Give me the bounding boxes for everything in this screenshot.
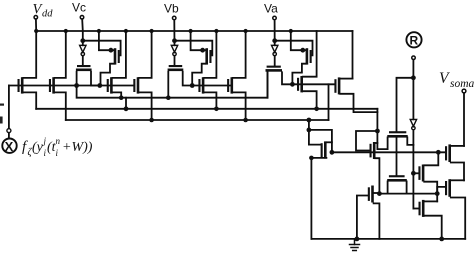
label Vdd xyxy=(33,2,54,20)
svg-text:soma: soma xyxy=(450,78,474,90)
node dot M12 source xyxy=(439,237,444,242)
node dot gnd1 xyxy=(355,237,360,242)
node dot A xyxy=(74,83,79,88)
transistor M3a mirror xyxy=(291,31,312,84)
transistor M6r xyxy=(334,77,377,112)
transistor M4b xyxy=(198,31,216,109)
wire X stem xyxy=(8,133,10,139)
node dot Va bias xyxy=(272,38,277,43)
scan artifact left edge xyxy=(0,104,4,106)
wire Vc bias line xyxy=(83,41,121,56)
wire D3 to Q1a gate xyxy=(274,56,276,66)
node dot J1 xyxy=(375,129,380,134)
wire D1 to Q1c gate xyxy=(82,56,84,66)
wire B2 to B3 connector xyxy=(125,98,127,109)
wire Vdd rail xyxy=(36,30,352,32)
svg-text:+W)): +W)) xyxy=(62,140,93,155)
diode D4 xyxy=(410,119,416,129)
transistor Q3 rotated xyxy=(387,175,407,193)
node rail dots xyxy=(34,29,293,33)
node dot B xyxy=(97,83,102,88)
transistor M8 xyxy=(311,141,332,239)
transistor Q2 rotated xyxy=(377,131,413,149)
wire Va bias line xyxy=(275,41,313,56)
wire R line lower xyxy=(412,130,414,209)
svg-text:j: j xyxy=(43,136,47,146)
wire Vb bias line xyxy=(175,41,213,56)
transistor Q1c rotated xyxy=(76,65,100,86)
wire Vc stem xyxy=(81,19,84,45)
wire B4 riser xyxy=(328,84,330,120)
svg-text:Vb: Vb xyxy=(164,2,179,16)
svg-text:n: n xyxy=(56,136,61,146)
wire Vsoma stem xyxy=(463,94,465,146)
wire ground bus xyxy=(311,238,465,240)
wire bus B3 xyxy=(36,108,377,110)
node dot M9 drain tap xyxy=(436,150,441,155)
node dot M4c source xyxy=(119,95,124,100)
ground symbol xyxy=(350,239,360,251)
svg-text:X: X xyxy=(5,139,14,154)
node dot J4 xyxy=(377,191,382,196)
label formula f(y(t+W)) xyxy=(22,136,93,158)
transistor M3c mirror xyxy=(99,31,120,86)
node dot M5c source xyxy=(149,118,154,123)
terminal R node xyxy=(412,56,416,60)
wire gate line input xyxy=(9,85,134,87)
diode D2 xyxy=(171,45,177,55)
terminal Vc xyxy=(80,16,84,20)
transistor M13 xyxy=(445,179,465,239)
node dot J2 xyxy=(307,127,312,132)
node dot M4b source xyxy=(214,107,219,112)
wire M13 gate riser xyxy=(437,187,445,194)
transistor M5c xyxy=(133,31,151,120)
wire bus B4 xyxy=(66,119,329,121)
transistor M3b mirror xyxy=(191,31,212,86)
svg-text:R: R xyxy=(410,34,419,48)
transistor M10 xyxy=(357,186,380,239)
node dot connector xyxy=(124,106,129,111)
diode D3 xyxy=(272,45,278,55)
wire Vdd stem xyxy=(35,19,37,31)
node dot node a xyxy=(290,82,295,87)
svg-text:V: V xyxy=(439,70,450,87)
svg-text:Vc: Vc xyxy=(72,1,86,15)
wire Vb stem xyxy=(173,20,175,45)
terminal Vsoma xyxy=(462,89,466,93)
svg-text:i: i xyxy=(56,148,59,158)
transistor M11 xyxy=(413,152,438,201)
wire B3 corner down xyxy=(376,109,378,149)
transistor M5b xyxy=(227,31,246,120)
wire R tap to Q2 xyxy=(397,78,414,131)
node dot Q1b drain xyxy=(166,95,171,100)
terminal X node xyxy=(7,129,11,133)
wire D2 to Q1b gate xyxy=(174,56,176,66)
wire Va stem xyxy=(274,20,276,45)
wire Q2 to Q3 xyxy=(396,137,398,175)
svg-text:dd: dd xyxy=(42,9,53,20)
wire B4 drop xyxy=(309,120,321,145)
node dot M5b source xyxy=(243,118,248,123)
node dot Vc bias xyxy=(80,38,85,43)
terminal Vb xyxy=(172,16,176,20)
node dot Vb bias xyxy=(172,38,177,43)
terminal Vdd xyxy=(34,16,38,20)
wire gate line b xyxy=(192,85,231,87)
svg-text:Va: Va xyxy=(264,2,278,16)
wire J1 to M7 gate xyxy=(356,131,377,151)
wire bus B2 xyxy=(77,71,268,98)
terminal X circled xyxy=(2,139,16,153)
wire J2 top link xyxy=(309,130,332,152)
transistor M4c xyxy=(107,31,126,98)
node dot R node xyxy=(411,171,416,176)
node dot J3 xyxy=(330,150,335,155)
node dot node b xyxy=(190,83,195,88)
transistor Q1a rotated xyxy=(266,66,293,98)
wire Y193 xyxy=(379,193,437,195)
node dot R tap xyxy=(411,75,416,80)
node dot B4 tap xyxy=(307,118,312,123)
wire X to gate line xyxy=(8,86,10,129)
diode D1 xyxy=(80,45,86,55)
transistor M12 xyxy=(413,200,441,239)
node dot J5 xyxy=(435,191,440,196)
svg-text:(y: (y xyxy=(32,140,44,155)
transistor M4a xyxy=(297,31,317,109)
wire gate line a xyxy=(292,83,335,85)
transistor M7 xyxy=(370,142,380,194)
transistor Q1b rotated xyxy=(168,65,193,98)
terminal R circled xyxy=(406,32,421,47)
transistor M2 xyxy=(49,31,66,120)
wire R stem down xyxy=(412,60,414,120)
label Vsoma xyxy=(439,70,474,90)
transistor M1 xyxy=(18,31,37,109)
wire gate bus Y152 xyxy=(332,151,445,153)
node dot M8 source xyxy=(309,156,314,161)
transistor M9 xyxy=(445,144,464,180)
wire rail end drop xyxy=(352,31,354,79)
node dot M4a source xyxy=(314,107,319,112)
terminal Va xyxy=(273,16,277,20)
